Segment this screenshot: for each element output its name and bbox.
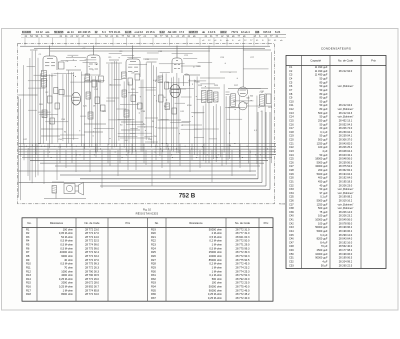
svg-text:28 772 47.0: 28 772 47.0 — [85, 231, 99, 235]
svg-text:28 772 50.0: 28 772 50.0 — [236, 239, 250, 243]
capacitor C16 — [138, 103, 143, 109]
wire — [130, 128, 138, 130]
wire — [19, 148, 277, 150]
wire — [83, 62, 98, 64]
svg-text:5000 µµF: 5000 µµF — [317, 160, 328, 164]
svg-text:28 375 54.0: 28 375 54.0 — [339, 164, 353, 168]
wire — [243, 49, 271, 51]
wire — [128, 91, 138, 93]
junction — [234, 108, 237, 111]
junction — [154, 80, 157, 83]
wire — [215, 144, 217, 158]
svg-text:4 12 S: 4 12 S — [208, 30, 216, 34]
svg-text:0,2 M-ohm: 0,2 M-ohm — [209, 262, 222, 266]
svg-text:28 052 04.3: 28 052 04.3 — [339, 122, 353, 126]
svg-text:voir „Bobines”: voir „Bobines” — [338, 115, 354, 119]
svg-text:0,5 M-ohm: 0,5 M-ohm — [60, 262, 73, 266]
svg-text:28 192 16.0: 28 192 16.0 — [339, 240, 353, 244]
capacitor C33 — [260, 95, 265, 107]
svg-text:P1555: P1555 — [279, 204, 286, 206]
svg-text:Capacité: Capacité — [310, 59, 321, 63]
wire — [160, 72, 170, 74]
wire — [242, 46, 244, 88]
wire — [242, 38, 244, 46]
wire — [110, 84, 121, 86]
svg-text:R20: R20 — [151, 231, 156, 235]
svg-text:C11: C11 — [289, 103, 294, 107]
wire — [93, 46, 95, 56]
junction — [92, 130, 95, 133]
wire — [41, 128, 63, 130]
junction — [49, 122, 52, 125]
svg-text:C4 12: C4 12 — [36, 30, 43, 34]
svg-text:R22: R22 — [151, 239, 156, 243]
svg-text:C47: C47 — [289, 240, 294, 244]
svg-text:28 772 46.0: 28 772 46.0 — [236, 288, 250, 292]
junction — [72, 74, 75, 77]
junction — [229, 71, 232, 74]
wire — [19, 143, 277, 145]
svg-text:772 S: 772 S — [231, 30, 238, 34]
wire — [202, 106, 204, 161]
svg-text:28 239 04.2: 28 239 04.2 — [339, 130, 353, 134]
svg-text:ant.: ant. — [45, 30, 50, 34]
wire — [165, 73, 167, 149]
svg-text:R17: R17 — [26, 288, 31, 292]
svg-text:S 4: S 4 — [102, 30, 106, 34]
junction — [194, 79, 197, 82]
svg-text:C3: C3 — [289, 73, 293, 77]
svg-text:R15: R15 — [26, 281, 31, 285]
wire — [95, 38, 97, 46]
wire — [34, 51, 36, 178]
svg-text:C43: C43 — [289, 225, 294, 229]
wire — [197, 98, 216, 100]
wire — [169, 150, 171, 178]
junction — [226, 42, 229, 45]
svg-text:70 ohm: 70 ohm — [64, 265, 74, 269]
svg-text:28 792 20.0: 28 792 20.0 — [236, 277, 250, 281]
junction — [195, 95, 198, 98]
svg-text:28 206 23.2: 28 206 23.2 — [339, 214, 353, 218]
wire — [22, 65, 24, 144]
junction — [88, 65, 91, 68]
svg-text:97 µµF: 97 µµF — [319, 191, 327, 195]
resistor R6 — [85, 74, 90, 81]
svg-text:S 24: S 24 — [275, 30, 281, 34]
svg-text:40 ohm: 40 ohm — [64, 258, 74, 262]
svg-text:70 µF: 70 µF — [321, 244, 328, 248]
svg-text:772 16-41: 772 16-41 — [109, 30, 121, 34]
svg-text:No. de Code: No. de Code — [235, 221, 251, 225]
wire — [67, 54, 78, 56]
wire — [100, 185, 266, 187]
svg-text:420 µµF: 420 µµF — [318, 145, 328, 149]
wire — [159, 77, 161, 156]
svg-text:R29: R29 — [151, 265, 156, 269]
wire — [226, 38, 228, 46]
svg-text:28 992 00.7: 28 992 00.7 — [85, 285, 99, 289]
wire — [158, 119, 182, 121]
wire — [151, 150, 153, 186]
svg-text:500 µµF: 500 µµF — [318, 138, 328, 142]
svg-text:0,25 M-ohm: 0,25 M-ohm — [208, 292, 223, 296]
tube V5 — [238, 87, 248, 110]
svg-text:R33: R33 — [151, 281, 156, 285]
svg-text:ab: ab — [202, 30, 205, 34]
svg-text:C18: C18 — [289, 130, 294, 134]
wire — [120, 104, 139, 106]
svg-text:200 µµF: 200 µµF — [318, 168, 328, 172]
svg-text:C7: C7 — [289, 88, 293, 92]
wire — [219, 106, 221, 157]
svg-text:C12: C12 — [289, 107, 294, 111]
wire — [225, 107, 245, 109]
wire — [18, 97, 20, 198]
svg-text:C13: C13 — [289, 111, 294, 115]
svg-text:28 772 90.3: 28 772 90.3 — [236, 254, 250, 258]
wire — [172, 53, 193, 55]
wire — [228, 88, 268, 90]
wire — [145, 62, 147, 139]
wire — [199, 38, 201, 46]
svg-text:R28: R28 — [151, 262, 156, 266]
wire — [43, 150, 45, 184]
svg-text:0,25 M-ohm: 0,25 M-ohm — [208, 296, 223, 300]
svg-text:0,1 µF: 0,1 µF — [320, 195, 328, 199]
svg-text:28 790 00.3: 28 790 00.3 — [85, 269, 99, 273]
wire — [61, 60, 77, 62]
svg-text:0,1 µF: 0,1 µF — [320, 130, 328, 134]
wire — [57, 73, 59, 143]
junction — [233, 100, 236, 103]
wire — [153, 65, 155, 143]
wire — [243, 68, 268, 70]
wire — [45, 121, 68, 123]
svg-text:voir „Bobines”: voir „Bobines” — [338, 84, 354, 88]
wire — [161, 119, 169, 121]
svg-text:R37: R37 — [151, 296, 156, 300]
wire — [261, 112, 263, 183]
junction — [192, 66, 195, 69]
svg-text:28 772 52.5: 28 772 52.5 — [85, 239, 99, 243]
wire — [151, 63, 153, 148]
svg-text:R4: R4 — [26, 239, 30, 243]
wire — [60, 174, 256, 176]
wire — [75, 150, 77, 172]
capacitor C22 — [202, 91, 207, 103]
svg-text:2000 ohm: 2000 ohm — [61, 281, 74, 285]
svg-text:C20: C20 — [289, 138, 294, 142]
wire — [94, 76, 96, 152]
svg-text:C50: C50 — [289, 252, 294, 256]
wire — [223, 84, 225, 152]
svg-text:1 M-ohm: 1 M-ohm — [212, 269, 223, 273]
svg-text:28 777 31.0: 28 777 31.0 — [236, 231, 250, 235]
svg-text:C30: C30 — [289, 176, 294, 180]
wire — [270, 52, 272, 163]
wire — [135, 150, 137, 170]
svg-text:28 775 40.0: 28 775 40.0 — [236, 285, 250, 289]
wire — [139, 86, 157, 88]
svg-text:10000 µµF: 10000 µµF — [315, 252, 328, 256]
capacitor C6 — [42, 110, 47, 118]
svg-text:5000 µµF: 5000 µµF — [317, 198, 328, 202]
svg-text:28 362 84.2: 28 362 84.2 — [339, 168, 353, 172]
wire — [183, 58, 197, 60]
svg-text:500 ohm: 500 ohm — [212, 277, 223, 281]
resistor R2 — [41, 79, 46, 88]
wire — [158, 127, 179, 129]
wire — [239, 150, 241, 168]
svg-text:R11: R11 — [26, 265, 31, 269]
wire — [182, 120, 191, 122]
wire — [228, 96, 230, 159]
svg-text:Prix: Prix — [264, 221, 269, 225]
svg-text:28 212 04.0: 28 212 04.0 — [339, 103, 353, 107]
wire — [49, 46, 51, 57]
svg-text:100 ohm: 100 ohm — [212, 281, 223, 285]
wire — [109, 150, 111, 166]
svg-text:4000 ohm: 4000 ohm — [61, 273, 74, 277]
wire — [126, 123, 145, 125]
svg-text:C15: C15 — [289, 118, 294, 122]
wire — [125, 78, 127, 152]
svg-text:50 µµF: 50 µµF — [319, 77, 327, 81]
svg-text:ab 14: ab 14 — [67, 30, 74, 34]
wire — [144, 136, 152, 138]
svg-text:C49: C49 — [289, 248, 294, 252]
svg-text:0,5 M-ohm: 0,5 M-ohm — [209, 235, 222, 239]
capacitor C5 — [48, 96, 53, 103]
svg-text:RÉSISTANCES: RÉSISTANCES — [136, 210, 159, 215]
wire — [170, 78, 172, 151]
svg-text:28 772 45.2: 28 772 45.2 — [236, 292, 250, 296]
wire — [99, 79, 101, 146]
wire — [114, 78, 123, 80]
wire — [54, 73, 74, 75]
junction — [95, 42, 98, 45]
wire — [200, 77, 225, 79]
capacitor C11 — [101, 105, 106, 111]
junction — [71, 55, 74, 58]
junction — [154, 126, 157, 129]
wire — [172, 77, 174, 152]
wire — [145, 117, 158, 119]
svg-text:R9: R9 — [26, 258, 30, 262]
svg-text:100 µµF: 100 µµF — [318, 221, 328, 225]
wire — [43, 71, 45, 144]
capacitor C4 — [54, 88, 58, 94]
svg-text:50 µµF: 50 µµF — [319, 99, 327, 103]
svg-text:28 212 94.0: 28 212 94.0 — [339, 69, 353, 73]
svg-text:28 774 25.3: 28 774 25.3 — [236, 269, 250, 273]
capacitor C10 — [86, 92, 91, 99]
wire — [233, 100, 253, 102]
svg-text:50 µµF: 50 µµF — [319, 134, 327, 138]
svg-text:40000 ohm: 40000 ohm — [60, 250, 74, 254]
wire — [84, 81, 101, 83]
junction — [139, 95, 142, 98]
wire — [191, 144, 193, 161]
svg-text:28 199 08.2: 28 199 08.2 — [339, 195, 353, 199]
svg-text:R1: R1 — [26, 227, 30, 231]
wire — [22, 157, 272, 159]
junction — [258, 103, 261, 106]
wire — [121, 121, 143, 123]
wire — [179, 150, 181, 166]
tube V4 anode cage — [184, 74, 190, 86]
wire — [176, 46, 178, 59]
svg-text:28 772 26.3: 28 772 26.3 — [85, 265, 99, 269]
wire — [189, 79, 191, 154]
svg-text:C17: C17 — [289, 126, 294, 130]
wire — [39, 114, 58, 116]
svg-text:R30: R30 — [151, 269, 156, 273]
svg-text:1 M-ohm: 1 M-ohm — [212, 265, 223, 269]
wire — [267, 38, 269, 46]
capacitor C2 — [58, 62, 64, 69]
tube V1 — [43, 56, 57, 70]
wire — [247, 96, 249, 164]
svg-text:C39: C39 — [289, 210, 294, 214]
svg-text:17 2: 17 2 — [179, 30, 185, 34]
svg-text:28 306 37.0: 28 306 37.0 — [339, 138, 353, 142]
wire — [118, 63, 120, 141]
junction — [155, 99, 158, 102]
svg-text:ond 12: ond 12 — [135, 30, 144, 34]
wire — [50, 50, 210, 52]
svg-text:28 771 29.0: 28 771 29.0 — [236, 243, 250, 247]
svg-text:50 µµF: 50 µµF — [319, 84, 327, 88]
svg-text:R8: R8 — [26, 254, 30, 258]
wire — [146, 89, 156, 91]
wire — [112, 38, 114, 46]
terminal strip line — [21, 33, 286, 35]
wire — [52, 38, 54, 46]
resistor R27 — [266, 94, 271, 103]
svg-text:1250 µµF: 1250 µµF — [317, 141, 328, 145]
capacitor C14 — [128, 78, 132, 85]
junction — [139, 42, 142, 45]
wire — [35, 144, 37, 155]
wire — [145, 141, 158, 143]
wire — [170, 122, 189, 124]
wire — [71, 144, 73, 164]
svg-text:C19: C19 — [289, 134, 294, 138]
svg-text:28 775 90.5: 28 775 90.5 — [236, 258, 250, 262]
svg-text:C4: C4 — [289, 77, 293, 81]
wire — [89, 150, 91, 172]
svg-text:28 772 52.3: 28 772 52.3 — [236, 273, 250, 277]
svg-text:C32: C32 — [289, 183, 294, 187]
wire — [94, 128, 114, 130]
svg-text:4 µF: 4 µF — [322, 259, 328, 263]
wire — [181, 65, 200, 67]
wire — [129, 63, 147, 65]
wire — [269, 112, 271, 190]
wire — [85, 59, 97, 61]
wire — [177, 88, 186, 90]
wire — [208, 46, 210, 164]
resistor R12 — [131, 95, 136, 102]
capacitor C23 — [208, 91, 213, 103]
wire — [34, 48, 265, 50]
wire — [19, 182, 263, 184]
svg-text:No. de Code: No. de Code — [84, 221, 100, 225]
wire — [63, 95, 72, 97]
svg-text:2 M: 2 M — [58, 146, 62, 148]
svg-text:015 12: 015 12 — [263, 30, 271, 34]
wire — [28, 87, 45, 89]
wire — [166, 82, 188, 84]
wire — [30, 49, 38, 51]
wire — [60, 134, 85, 136]
svg-text:1 M-ohm: 1 M-ohm — [63, 288, 74, 292]
wire — [107, 144, 109, 164]
wire — [55, 193, 57, 199]
junction — [24, 42, 27, 45]
svg-text:11 490 µµF: 11 490 µµF — [315, 69, 328, 73]
svg-text:500 µµF: 500 µµF — [318, 111, 328, 115]
wire — [106, 62, 122, 64]
wire — [107, 97, 120, 99]
svg-text:R18: R18 — [26, 292, 31, 296]
svg-text:28 043 34.1: 28 043 34.1 — [339, 153, 353, 157]
wire — [226, 91, 230, 93]
svg-text:C27: C27 — [289, 164, 294, 168]
junction — [109, 137, 112, 140]
wire — [108, 119, 131, 121]
svg-text:100 µµF: 100 µµF — [318, 214, 328, 218]
wire — [65, 74, 67, 147]
wire — [118, 136, 137, 138]
wire — [191, 112, 204, 114]
wire — [113, 61, 115, 147]
wire — [28, 80, 48, 82]
svg-text:28 204 99.2: 28 204 99.2 — [339, 259, 353, 263]
wire — [131, 79, 133, 153]
junction — [138, 112, 141, 115]
svg-text:Résistance: Résistance — [50, 221, 64, 225]
svg-text:C6: C6 — [289, 84, 293, 88]
transformer L1 — [71, 92, 80, 105]
svg-text:C23: C23 — [289, 149, 294, 153]
svg-text:CONDENSATEURS: CONDENSATEURS — [321, 46, 351, 50]
wire — [30, 159, 268, 161]
svg-text:R5: R5 — [26, 243, 30, 247]
svg-text:Prix: Prix — [371, 59, 376, 63]
wire — [70, 81, 91, 83]
wire — [231, 150, 233, 176]
junction — [50, 75, 53, 78]
svg-text:R23: R23 — [151, 243, 156, 247]
svg-text:28 772 29.0: 28 772 29.0 — [85, 277, 99, 281]
capacitor C28 — [231, 94, 236, 106]
svg-text:28 239 04.1: 28 239 04.1 — [339, 134, 353, 138]
junction — [92, 134, 95, 137]
wire — [62, 137, 78, 139]
capacitor C18 — [165, 82, 169, 89]
wire — [121, 55, 134, 57]
junction — [236, 77, 239, 80]
svg-text:28 048 04.4: 28 048 04.4 — [339, 149, 353, 153]
wire — [228, 107, 240, 109]
wire — [227, 144, 229, 161]
svg-text:R19: R19 — [151, 227, 156, 231]
wire — [168, 88, 194, 90]
svg-text:C35: C35 — [289, 195, 294, 199]
